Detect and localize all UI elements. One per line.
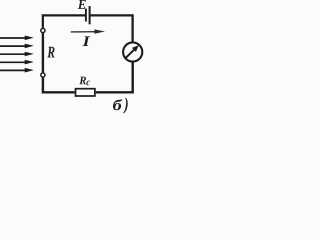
wire bottom-right (96, 62, 133, 92)
light arrow 2 (0, 44, 34, 49)
label E (78, 0, 86, 9)
wire bottom-left (43, 78, 75, 93)
terminal node bottom (41, 73, 45, 77)
label b) (113, 97, 128, 113)
current arrow I (71, 29, 105, 33)
label Rc (79, 77, 90, 86)
resistor Rc (76, 89, 95, 96)
light arrow 4 (0, 60, 34, 65)
light arrow 1 (0, 36, 34, 41)
galvanometer (123, 42, 142, 61)
terminal node top (41, 28, 45, 32)
label R (47, 47, 54, 58)
photoresistor R (42, 33, 44, 72)
label I (82, 36, 90, 46)
wire top-right horizontal (91, 15, 133, 42)
light arrow 3 (0, 52, 34, 57)
battery E (86, 6, 90, 24)
light arrow 5 (0, 68, 34, 73)
wire top-left horizontal (43, 15, 85, 28)
